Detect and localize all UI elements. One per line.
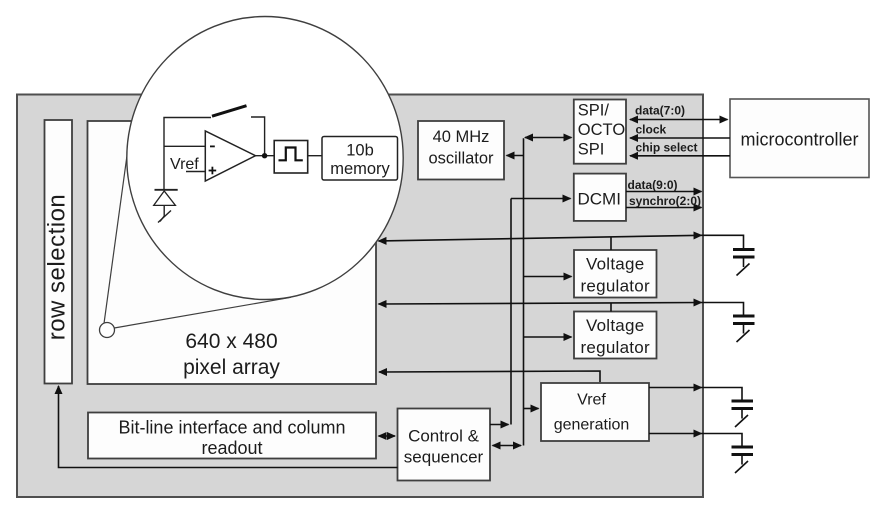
svg-text:Bit-line interface and column: Bit-line interface and column [118, 418, 345, 438]
svg-text:sequencer: sequencer [404, 448, 484, 467]
wire: vertical bus A + branch to DCMI [510, 199, 512, 425]
wire: power line 3 (pixel array to Vref generation) [379, 371, 600, 382]
svg-text:Voltage: Voltage [586, 255, 644, 274]
wire: DCMI synchro out [626, 207, 702, 209]
bit-line interface box [88, 413, 376, 459]
voltage regulator 1 box [574, 250, 657, 298]
wire: clock from microcontroller [630, 137, 730, 139]
svg-text:regulator: regulator [581, 277, 650, 296]
node: output dot [262, 153, 267, 158]
svg-text:OCTO: OCTO [578, 121, 626, 139]
op-amp comparator [205, 131, 255, 181]
svg-text:40 MHz: 40 MHz [433, 128, 490, 146]
svg-text:pixel array: pixel array [183, 356, 280, 379]
photodiode D1 [155, 189, 178, 191]
svg-text:chip select: chip select [636, 141, 698, 155]
wire: minus input [164, 145, 206, 147]
magnifier leader line right [114, 297, 291, 328]
svg-text:row selection: row selection [43, 194, 70, 341]
svg-text:microcontroller: microcontroller [740, 130, 858, 150]
pulse shaper box [274, 141, 308, 174]
pixel array box [88, 121, 377, 384]
wire: stub power line 2 to regulator 2 [610, 303, 612, 311]
capacitor C1 [733, 250, 755, 276]
wire: Vref gen output 1 to cap 3 [649, 387, 702, 389]
magnifier leader line left [104, 157, 127, 324]
wire: vertical bus B [523, 138, 525, 445]
wire: power line 1 (pixel array to cap 1) [379, 235, 702, 241]
40 MHz oscillator box [418, 121, 504, 180]
capacitor C3 [732, 401, 754, 427]
wire: control <-> bus B double arrow [493, 445, 522, 447]
svg-text:Vref: Vref [577, 392, 606, 409]
svg-text:synchro(2:0): synchro(2:0) [629, 194, 701, 208]
svg-text:10b: 10b [346, 142, 374, 160]
svg-text:DCMI: DCMI [578, 189, 621, 208]
svg-text:regulator: regulator [581, 338, 650, 357]
wire: Vref gen output 2 to cap 4 [649, 433, 702, 435]
DCMI box [574, 174, 626, 221]
wire: DCMI data out [626, 191, 702, 193]
wire: power line 2 (pixel array to cap 2) [379, 303, 702, 305]
svg-text:Vref: Vref [170, 156, 199, 173]
pixel cell: feedback wire + reset switch [251, 117, 265, 156]
wire: chip select from microcontroller [630, 155, 730, 157]
pulse glyph [279, 148, 303, 161]
svg-text:data(7:0): data(7:0) [635, 104, 685, 118]
10b memory box [322, 137, 398, 181]
voltage regulator 2 box [574, 312, 657, 359]
Vref generation box [541, 383, 649, 441]
switch blade [212, 106, 247, 117]
wire: pulse to memory [308, 155, 322, 157]
chip body (gray die area) [17, 95, 703, 498]
svg-text:memory: memory [330, 160, 390, 178]
svg-text:oscillator: oscillator [428, 150, 494, 168]
svg-text:Voltage: Voltage [586, 316, 644, 335]
capacitor C4 [732, 447, 754, 473]
wire: bus B -> voltage regulator 2 [524, 336, 572, 338]
control & sequencer box [398, 409, 491, 481]
svg-text:readout: readout [201, 438, 262, 458]
wire: control -> bus A [490, 424, 509, 426]
microcontroller box [730, 99, 869, 178]
svg-text:data(9:0): data(9:0) [628, 178, 678, 192]
svg-text:clock: clock [636, 123, 667, 137]
wire: bus B -> Vref generation [524, 408, 539, 410]
wire: SPI <-> microcontroller data bus [630, 119, 728, 121]
svg-text:generation: generation [554, 417, 630, 434]
wire: control to row selection [59, 386, 398, 468]
magnifier small circle [100, 323, 115, 338]
SPI/OCTO SPI box [574, 100, 626, 164]
wire: stub power line 1 to regulator 1 [610, 237, 612, 250]
wire: bus B -> voltage regulator 1 [524, 276, 572, 278]
svg-text:Control &: Control & [408, 427, 480, 446]
wire: plus input (Vref) [186, 171, 206, 173]
wire: bit-line <-> control double arrow [379, 435, 396, 437]
wire: comparator output [256, 155, 275, 157]
svg-text:SPI/: SPI/ [578, 102, 610, 120]
row selection box [45, 120, 73, 384]
magnifier circle [127, 17, 403, 300]
wire: osc <-> SPI double arrow [525, 137, 572, 139]
svg-text:SPI: SPI [578, 140, 605, 158]
svg-text:640 x 480: 640 x 480 [185, 330, 277, 353]
capacitor C2 [733, 316, 755, 342]
wire: bus B -> oscillator [507, 155, 524, 157]
